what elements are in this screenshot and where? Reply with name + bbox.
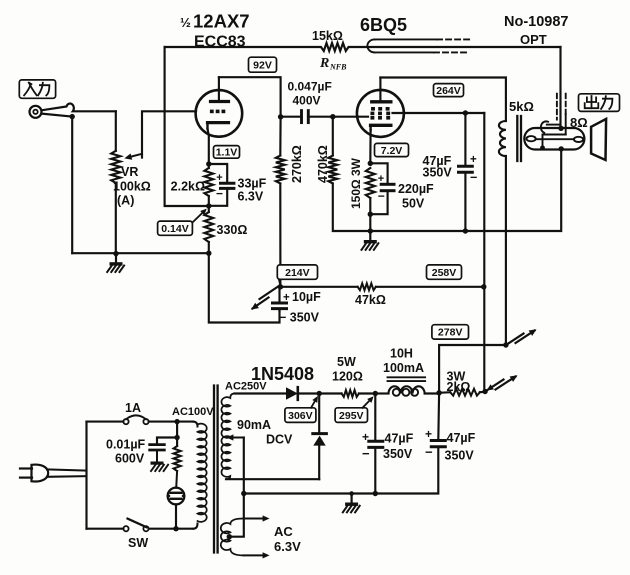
ground rail input section	[72, 252, 209, 254]
wire secondary top line	[375, 38, 438, 40]
wire neon to SW line	[175, 504, 177, 528]
node 6BQ5 grid	[330, 114, 335, 119]
svg-text:470kΩ: 470kΩ	[316, 145, 330, 183]
wire 330 leads	[208, 206, 210, 212]
AC plug	[20, 467, 32, 469]
wire heater CT up	[229, 494, 244, 537]
svg-text:VR: VR	[121, 165, 138, 179]
svg-text:OPT: OPT	[520, 32, 547, 47]
node V2 cathode top	[368, 161, 373, 166]
capacitor 47µF 350V (screen)	[464, 113, 466, 166]
node screen/47µF	[463, 110, 468, 115]
svg-text:120Ω: 120Ω	[332, 370, 363, 384]
node 278V	[503, 342, 508, 347]
capacitor 47µF 350V (input filter)	[374, 394, 376, 442]
capacitor 47µF 350V (output filter)	[437, 393, 440, 441]
node capsule top	[558, 126, 563, 131]
choke core	[388, 376, 426, 378]
lightning at 278V	[506, 334, 524, 346]
leader arrow 306V	[311, 399, 317, 408]
node 258V	[481, 284, 486, 289]
svg-text:NFB: NFB	[329, 63, 347, 72]
fuse 1A	[123, 419, 128, 424]
svg-text:100mA: 100mA	[383, 361, 424, 375]
power transformer T1 core	[213, 386, 215, 553]
node choke out	[436, 390, 441, 395]
leader arrow 295V	[363, 399, 372, 408]
capacitor 220µF 50V	[381, 183, 394, 186]
svg-text:8Ω: 8Ω	[570, 115, 588, 130]
wire neon branch top	[176, 422, 178, 446]
speaker coil capsule (secondary 8Ω)	[524, 128, 584, 150]
wire SW line	[87, 528, 124, 530]
svg-text:278V: 278V	[438, 327, 463, 339]
grid of V1 (dots)	[210, 110, 214, 114]
node bias junction	[206, 203, 211, 208]
node capsule bottom left	[540, 145, 545, 150]
svg-text:+: +	[362, 430, 369, 444]
ground PSU	[351, 494, 353, 503]
wire 270k leads	[279, 117, 281, 156]
ground 0.01µF	[151, 462, 164, 465]
wire upper ground line	[370, 149, 561, 231]
node cap tee	[174, 435, 179, 440]
svg-text:0.14V: 0.14V	[161, 223, 188, 235]
switch SW	[123, 526, 128, 531]
capacitor 10µF 350V	[278, 287, 280, 303]
wire pot top lead	[115, 111, 117, 151]
voltage box 92V	[249, 57, 277, 72]
diode D1 1N5408 series	[235, 392, 287, 394]
node 2k out	[482, 389, 487, 394]
svg-text:50V: 50V	[402, 197, 425, 211]
svg-text:−: −	[216, 187, 223, 201]
voltage box 258V	[427, 265, 462, 279]
wire NFB vertical	[165, 47, 209, 206]
T1 heater winding	[221, 519, 244, 556]
svg-text:0.01µF: 0.01µF	[106, 438, 146, 452]
svg-text:10µF: 10µF	[292, 290, 321, 304]
resistor 470kΩ grid leak	[328, 156, 337, 184]
voltage box 295V	[335, 408, 367, 423]
wire cathode 2.2k leads	[208, 164, 210, 168]
wire 47k to 258V	[376, 286, 484, 288]
node PSU ground stub	[349, 491, 354, 496]
svg-text:1A: 1A	[125, 401, 141, 415]
svg-text:+: +	[425, 427, 432, 441]
svg-text:AC250V: AC250V	[225, 381, 267, 393]
resistor 150Ω 3W cathode	[366, 168, 375, 198]
wire V2 plate to OPT	[380, 78, 506, 122]
wire dashed drop 1	[556, 94, 558, 120]
neon lamp PL	[175, 471, 178, 488]
svg-text:150Ω 3W: 150Ω 3W	[349, 157, 363, 209]
svg-text:0.047µF: 0.047µF	[288, 80, 332, 94]
svg-text:2.2kΩ: 2.2kΩ	[171, 180, 205, 194]
wire 470k leads	[332, 117, 334, 156]
svg-text:295V: 295V	[339, 410, 364, 422]
svg-text:+: +	[470, 154, 477, 166]
plate of V1	[218, 77, 220, 101]
svg-text:264V: 264V	[436, 85, 461, 97]
tube V2 6BQ5 envelope	[357, 90, 404, 137]
resistor 120Ω 5W	[319, 392, 341, 394]
tube V1 1/2 12AX7 envelope	[196, 90, 243, 137]
wire heater top arrow	[244, 518, 266, 520]
svg-text:−: −	[378, 189, 385, 203]
svg-text:400V: 400V	[293, 94, 321, 108]
svg-text:½: ½	[180, 15, 191, 30]
T1 primary winding	[198, 424, 207, 522]
cathode of V1	[208, 121, 229, 124]
svg-text:47µF: 47µF	[385, 432, 414, 446]
node V1 plate signal	[278, 114, 283, 119]
voltage box 264V	[434, 84, 464, 97]
node neon SW tee	[173, 526, 178, 531]
svg-text:SW: SW	[128, 536, 148, 550]
svg-text:306V: 306V	[288, 410, 313, 422]
node 295V	[373, 391, 378, 396]
resistor 47kΩ	[358, 283, 376, 290]
plate of V2	[379, 78, 381, 102]
wire cathode lead V2	[369, 130, 371, 163]
node pot ground	[113, 251, 118, 256]
svg-text:(A): (A)	[117, 194, 134, 208]
wiper arrow of VR	[128, 154, 142, 158]
lightning at 10µF	[260, 286, 280, 299]
wire 214V line	[280, 286, 357, 288]
wire pot bottom lead	[115, 183, 117, 253]
wire secondary bottom line	[375, 51, 434, 53]
svg-text:220µF: 220µF	[398, 182, 434, 196]
potentiometer VR 100kΩ(A)	[111, 151, 120, 183]
svg-text:− 350V: − 350V	[279, 311, 320, 325]
wire fuse line	[87, 421, 124, 423]
diode D2 1N5408 shunt	[318, 394, 320, 434]
wire ground to 10µF bottom	[209, 253, 280, 322]
wire HV bottom to shunt diode	[226, 478, 319, 480]
svg-text:47µF: 47µF	[447, 431, 476, 445]
svg-text:6.3V: 6.3V	[238, 190, 264, 204]
wire capsule hook	[541, 121, 548, 132]
input terminal label box nyuryoku	[19, 80, 55, 98]
svg-text:No-10987: No-10987	[504, 14, 568, 30]
voltage box 7.2V	[375, 143, 409, 156]
node cathode junction V1	[206, 161, 211, 166]
wire cathode box	[370, 163, 387, 184]
node 306V	[317, 391, 322, 396]
speaker cone	[591, 119, 606, 160]
node cathode ground	[368, 228, 373, 233]
node C input ground	[373, 491, 378, 496]
svg-text:+: +	[216, 172, 222, 184]
svg-text:5kΩ: 5kΩ	[509, 99, 534, 114]
svg-text:10H: 10H	[390, 347, 413, 361]
svg-text:2kΩ: 2kΩ	[447, 380, 471, 394]
svg-text:AC: AC	[274, 524, 293, 539]
svg-text:+: +	[378, 173, 384, 185]
svg-text:DCV: DCV	[266, 433, 293, 447]
wire jack sleeve	[42, 114, 73, 117]
svg-text:6.3V: 6.3V	[274, 539, 301, 554]
choke 10H 100mA	[375, 392, 388, 394]
capacitor 0.047µF 400V coupling	[281, 116, 302, 118]
node 330 ground corner	[206, 251, 211, 256]
wire dashed drop 2	[565, 94, 567, 114]
wire NFB takeoff vertical	[559, 47, 561, 128]
T1 HV secondary winding	[221, 394, 234, 480]
wire sleeve to ground rail	[71, 117, 73, 254]
node heater CT	[227, 534, 232, 539]
svg-text:R: R	[319, 56, 329, 71]
svg-text:33µF: 33µF	[238, 177, 267, 191]
svg-text:100kΩ: 100kΩ	[113, 180, 151, 194]
node 214V	[278, 284, 283, 289]
cathode of V2	[371, 124, 391, 127]
wire jack tip with hop	[42, 104, 116, 112]
voltage box 0.14V	[158, 221, 193, 235]
svg-text:+: +	[283, 292, 290, 304]
OPT primary winding 5kΩ	[499, 121, 506, 156]
svg-text:214V: 214V	[285, 267, 310, 279]
voltage box 278V	[432, 325, 469, 339]
svg-text:6BQ5: 6BQ5	[360, 15, 407, 35]
leader 214V	[279, 279, 280, 285]
leader arrow 0.14V	[192, 211, 204, 223]
svg-text:5W: 5W	[337, 355, 356, 369]
svg-text:−: −	[425, 445, 433, 460]
svg-text:350V: 350V	[423, 166, 453, 180]
wire cathode lead V1	[208, 129, 209, 164]
ground 6BQ5 cathode	[369, 231, 371, 240]
svg-text:AC100V: AC100V	[172, 406, 214, 418]
node PSU ground rail start	[241, 491, 246, 496]
voltage box 1.1V	[214, 146, 240, 159]
wire 278V branch	[439, 345, 506, 393]
svg-text:330Ω: 330Ω	[217, 223, 248, 237]
wire heater bottom arrow	[244, 554, 266, 556]
svg-text:12AX7: 12AX7	[193, 11, 250, 32]
wire mains vertical	[85, 422, 87, 529]
voltage box 306V	[285, 408, 316, 423]
svg-text:15kΩ: 15kΩ	[312, 29, 343, 43]
voltage box 214V	[277, 265, 317, 279]
resistor 15kΩ R_NFB	[165, 43, 561, 51]
wire plug cord	[47, 469, 87, 470]
ground input	[115, 253, 117, 262]
wire V1 plate to coupling node	[219, 77, 281, 117]
wire wiper to grid	[142, 111, 196, 157]
svg-text:92V: 92V	[253, 59, 272, 71]
resistor neon series	[174, 446, 181, 471]
grids of V2 (3 dot rows)	[371, 107, 375, 111]
node jack sleeve junction	[70, 114, 75, 119]
capacitor 0.01µF 600V	[157, 438, 177, 445]
resistor 330Ω	[204, 212, 213, 242]
input jack J1	[30, 106, 42, 118]
svg-text:1.1V: 1.1V	[216, 147, 238, 159]
node capsule bottom	[559, 146, 564, 151]
svg-text:600V: 600V	[115, 452, 145, 466]
svg-text:7.2V: 7.2V	[381, 145, 403, 157]
capacitor 33µF 6.3V bypass	[209, 164, 227, 183]
wire screen line 264V	[393, 112, 485, 114]
svg-text:47kΩ: 47kΩ	[355, 293, 386, 307]
resistor 2kΩ 3W	[439, 391, 450, 394]
resistor 2.2kΩ cathode bias	[204, 168, 213, 196]
svg-text:350V: 350V	[445, 449, 475, 463]
svg-text:350V: 350V	[383, 447, 413, 461]
wire CT to ground rail	[243, 438, 245, 494]
svg-text:270kΩ: 270kΩ	[290, 145, 304, 183]
output label box shutsuryoku	[579, 94, 620, 112]
node V2 cathode bottom	[368, 212, 373, 217]
lightning at 2k out	[485, 380, 503, 392]
wire OPT primary bottom to 278V	[505, 156, 507, 345]
svg-text:90mA: 90mA	[237, 418, 271, 432]
wire screen drop to 258V	[483, 113, 485, 287]
node fuse/cap tee	[174, 419, 179, 424]
resistor 270kΩ plate load	[276, 156, 285, 184]
T1 center tap arrow	[230, 437, 244, 439]
svg-text:−: −	[470, 171, 477, 185]
wire cathode to ground line	[369, 214, 371, 231]
svg-text:258V: 258V	[432, 267, 457, 279]
OPT core	[516, 116, 518, 161]
svg-text:−: −	[362, 446, 370, 461]
node screen cap bottom	[463, 228, 468, 233]
wire secondary pair start curl	[367, 39, 374, 52]
